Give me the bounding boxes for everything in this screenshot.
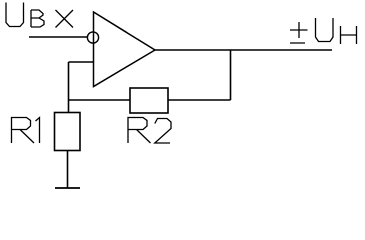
wire R2 right to feedback	[168, 99, 231, 101]
wire output	[155, 49, 332, 51]
node Uвх label: letter U	[6, 3, 24, 27]
inverting input circle	[87, 32, 98, 43]
wire node to R2 left	[69, 99, 131, 101]
wire R1 bottom to ground	[67, 151, 69, 189]
wire input Uвх to inverting input	[29, 36, 88, 38]
resistor R2 body	[130, 88, 168, 113]
label R1: letter R	[12, 118, 35, 144]
label ±Uн: letter U	[316, 18, 334, 42]
wire left vertical from noninverting input to R1	[68, 62, 70, 113]
label R2: letter R	[128, 118, 151, 144]
wire feedback vertical	[230, 50, 232, 100]
ground	[55, 187, 80, 189]
node Uвх label: letter в	[31, 10, 44, 27]
node Uвх label: letter х	[56, 10, 74, 28]
label ±Uн: plus-minus sign	[290, 22, 308, 43]
op-amp U1 triangle	[94, 12, 156, 87]
wire noninverting input	[69, 61, 94, 63]
label R1: digit 1	[36, 118, 40, 144]
label ±Uн: letter н	[341, 26, 357, 44]
label R2: digit 2	[155, 119, 171, 144]
resistor R1 body	[55, 113, 81, 151]
